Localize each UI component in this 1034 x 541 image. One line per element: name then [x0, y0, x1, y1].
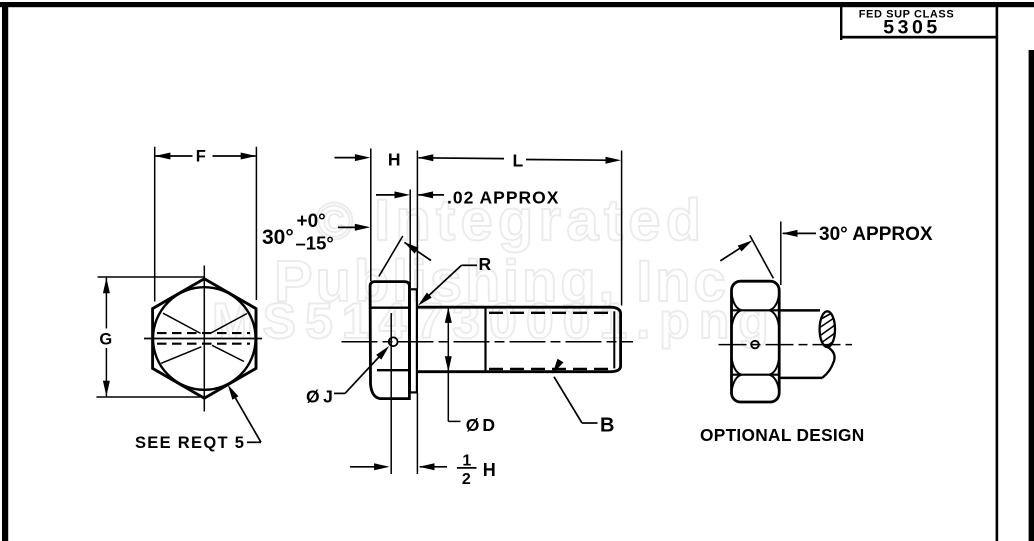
J leader horizontal: [334, 392, 345, 394]
svg-text:–15°: –15°: [296, 233, 334, 254]
dim G extension line bottom: [97, 396, 201, 398]
dim D vertical line: [447, 307, 449, 421]
svg-text:B: B: [600, 415, 614, 437]
facet arc top-right upper: [769, 295, 779, 310]
facet arc upper-right: [769, 310, 779, 326]
fed sup class box bottom line: [840, 36, 997, 39]
thread dashed line bottom: [489, 368, 612, 370]
B leader diagonal: [554, 377, 582, 423]
dim D arrow down: [445, 356, 452, 372]
hex head front view : hexagon: [153, 279, 256, 398]
dim D arrow up: [445, 307, 452, 323]
facet arc bottom-right lower: [769, 375, 779, 390]
R leader diagonal: [421, 265, 462, 303]
dim .02 arrow left: [395, 191, 411, 198]
hidden hole line lower: [157, 343, 250, 345]
thread runout line: [484, 307, 486, 372]
hex vertical centerline: [203, 266, 205, 412]
svg-text:OPTIONAL DESIGN: OPTIONAL DESIGN: [700, 425, 865, 445]
see reqt leader diagonal: [231, 390, 262, 443]
hole center vertical line: [390, 313, 392, 474]
dim half H arrow right: [419, 463, 435, 470]
head chamfer line: [370, 307, 409, 309]
head chamfer construction line: [379, 236, 403, 277]
chamfer angle arrow tail: [405, 242, 432, 260]
sheet top border: [0, 2, 1034, 7]
optional head facet line upper: [732, 309, 779, 311]
facet arc bottom-left lower: [732, 375, 742, 390]
optional chamfer angle arrow: [738, 237, 755, 251]
broken section ellipse: [820, 311, 835, 347]
hex head chamfer circle: [153, 287, 256, 390]
bearing face extension line lower: [416, 393, 418, 475]
optional chamfer construction line: [750, 235, 774, 278]
svg-text:30° APPROX: 30° APPROX: [819, 224, 933, 245]
optional shank bottom line: [779, 377, 822, 380]
svg-text:2: 2: [462, 471, 471, 488]
optional design centerline: [719, 344, 853, 346]
bolt end chamfer line: [613, 311, 615, 368]
dim F line right segment: [213, 155, 256, 157]
dim G line upper segment: [105, 278, 107, 329]
sheet inner margin line: [996, 7, 999, 541]
dim G extension line top: [98, 276, 205, 278]
J leader diagonal: [345, 349, 387, 394]
30 deg leader line: [338, 226, 356, 228]
fraction bar: [457, 467, 477, 469]
dim F extension line left: [154, 147, 156, 302]
lockwire hole: [389, 337, 398, 346]
30 deg leader arrow: [355, 224, 371, 231]
R leader horizontal: [462, 264, 478, 266]
svg-text:ØD: ØD: [466, 415, 498, 435]
dim F extension line right: [255, 147, 257, 300]
dim .02 line left: [376, 194, 397, 196]
optional 30 deg leader arrow: [782, 230, 798, 237]
B arrow: [549, 359, 563, 376]
see reqt leader horizontal tick: [247, 441, 261, 443]
optional chamfer angle arrow tail: [720, 248, 740, 261]
head facet line: [377, 369, 409, 371]
hex facet diagonal upper-right: [212, 314, 248, 333]
dim L line left segment: [419, 157, 505, 160]
sheet right border: [1029, 50, 1034, 541]
dim half H line left: [350, 466, 376, 468]
dim G arrow up: [103, 278, 110, 294]
fed sup class box left line: [840, 7, 842, 40]
svg-text:F: F: [196, 148, 206, 166]
head right face extension line: [409, 190, 411, 289]
thread dashed line top: [489, 312, 612, 314]
svg-text:1: 1: [462, 453, 471, 470]
facet arc upper-left: [732, 310, 742, 326]
chamfer angle arrow: [402, 239, 419, 254]
J arrow: [376, 344, 392, 360]
facet arc lower-left: [732, 359, 742, 375]
svg-text:SEE REQT 5: SEE REQT 5: [135, 434, 245, 452]
dim half H line right: [420, 466, 447, 468]
dim .02 line right: [418, 194, 444, 196]
optional head facet line lower: [732, 374, 779, 376]
svg-text:.02 APPROX: .02 APPROX: [447, 188, 559, 208]
svg-text:MS514730001.png: MS514730001.png: [212, 293, 778, 349]
dim L arrow right: [606, 157, 622, 164]
optional 30 deg extension line: [780, 222, 782, 286]
dim F arrow right: [241, 153, 257, 160]
sheet left border: [2, 2, 8, 541]
section hatching: [821, 314, 836, 347]
svg-text:R: R: [479, 254, 492, 274]
R arrow: [416, 292, 432, 308]
optional shank top line: [779, 309, 820, 312]
svg-text:L: L: [512, 151, 523, 171]
svg-text:+0°: +0°: [297, 211, 326, 232]
facet arc lower-right: [769, 359, 779, 375]
svg-text:H: H: [483, 460, 496, 480]
svg-text:ØJ: ØJ: [306, 387, 336, 407]
bearing face extension line: [416, 151, 418, 289]
dim .02 arrow right: [418, 191, 434, 198]
dim L arrow left: [418, 154, 434, 161]
dim H extension line left: [370, 149, 372, 282]
dim H arrow: [355, 154, 371, 161]
optional head hole: [751, 341, 759, 349]
optional head outline: [732, 281, 780, 402]
dim F line left segment: [156, 155, 193, 157]
dim half H arrow left: [374, 463, 390, 470]
B leader horizontal: [582, 422, 598, 424]
hex horizontal centerline: [144, 338, 262, 340]
bolt end extension line: [621, 151, 623, 306]
hidden hole line upper: [157, 332, 250, 334]
dim F arrow left: [155, 153, 171, 160]
bolt centerline: [342, 341, 634, 343]
svg-text:G: G: [99, 331, 112, 349]
dim L line right segment: [526, 159, 607, 162]
optional 30 deg leader line: [783, 232, 816, 234]
svg-text:5305: 5305: [883, 17, 940, 39]
bolt head side view outline: [370, 282, 409, 399]
dim G line lower segment: [105, 348, 107, 396]
dim D elbow: [448, 420, 460, 422]
hex facet diagonal lower-right: [212, 345, 244, 361]
break S-curve: [822, 347, 834, 378]
svg-text:30°: 30°: [262, 226, 294, 249]
svg-text:H: H: [388, 150, 401, 170]
dim H tail line: [335, 157, 357, 159]
dim G arrow down: [103, 381, 110, 397]
see reqt arrow: [225, 383, 239, 400]
facet arc top-left upper: [732, 295, 742, 310]
hex facet diagonal lower-left: [161, 347, 201, 364]
shank outline: [417, 307, 621, 372]
washer face flange: [410, 289, 417, 392]
hex facet diagonal upper-left: [163, 313, 201, 333]
